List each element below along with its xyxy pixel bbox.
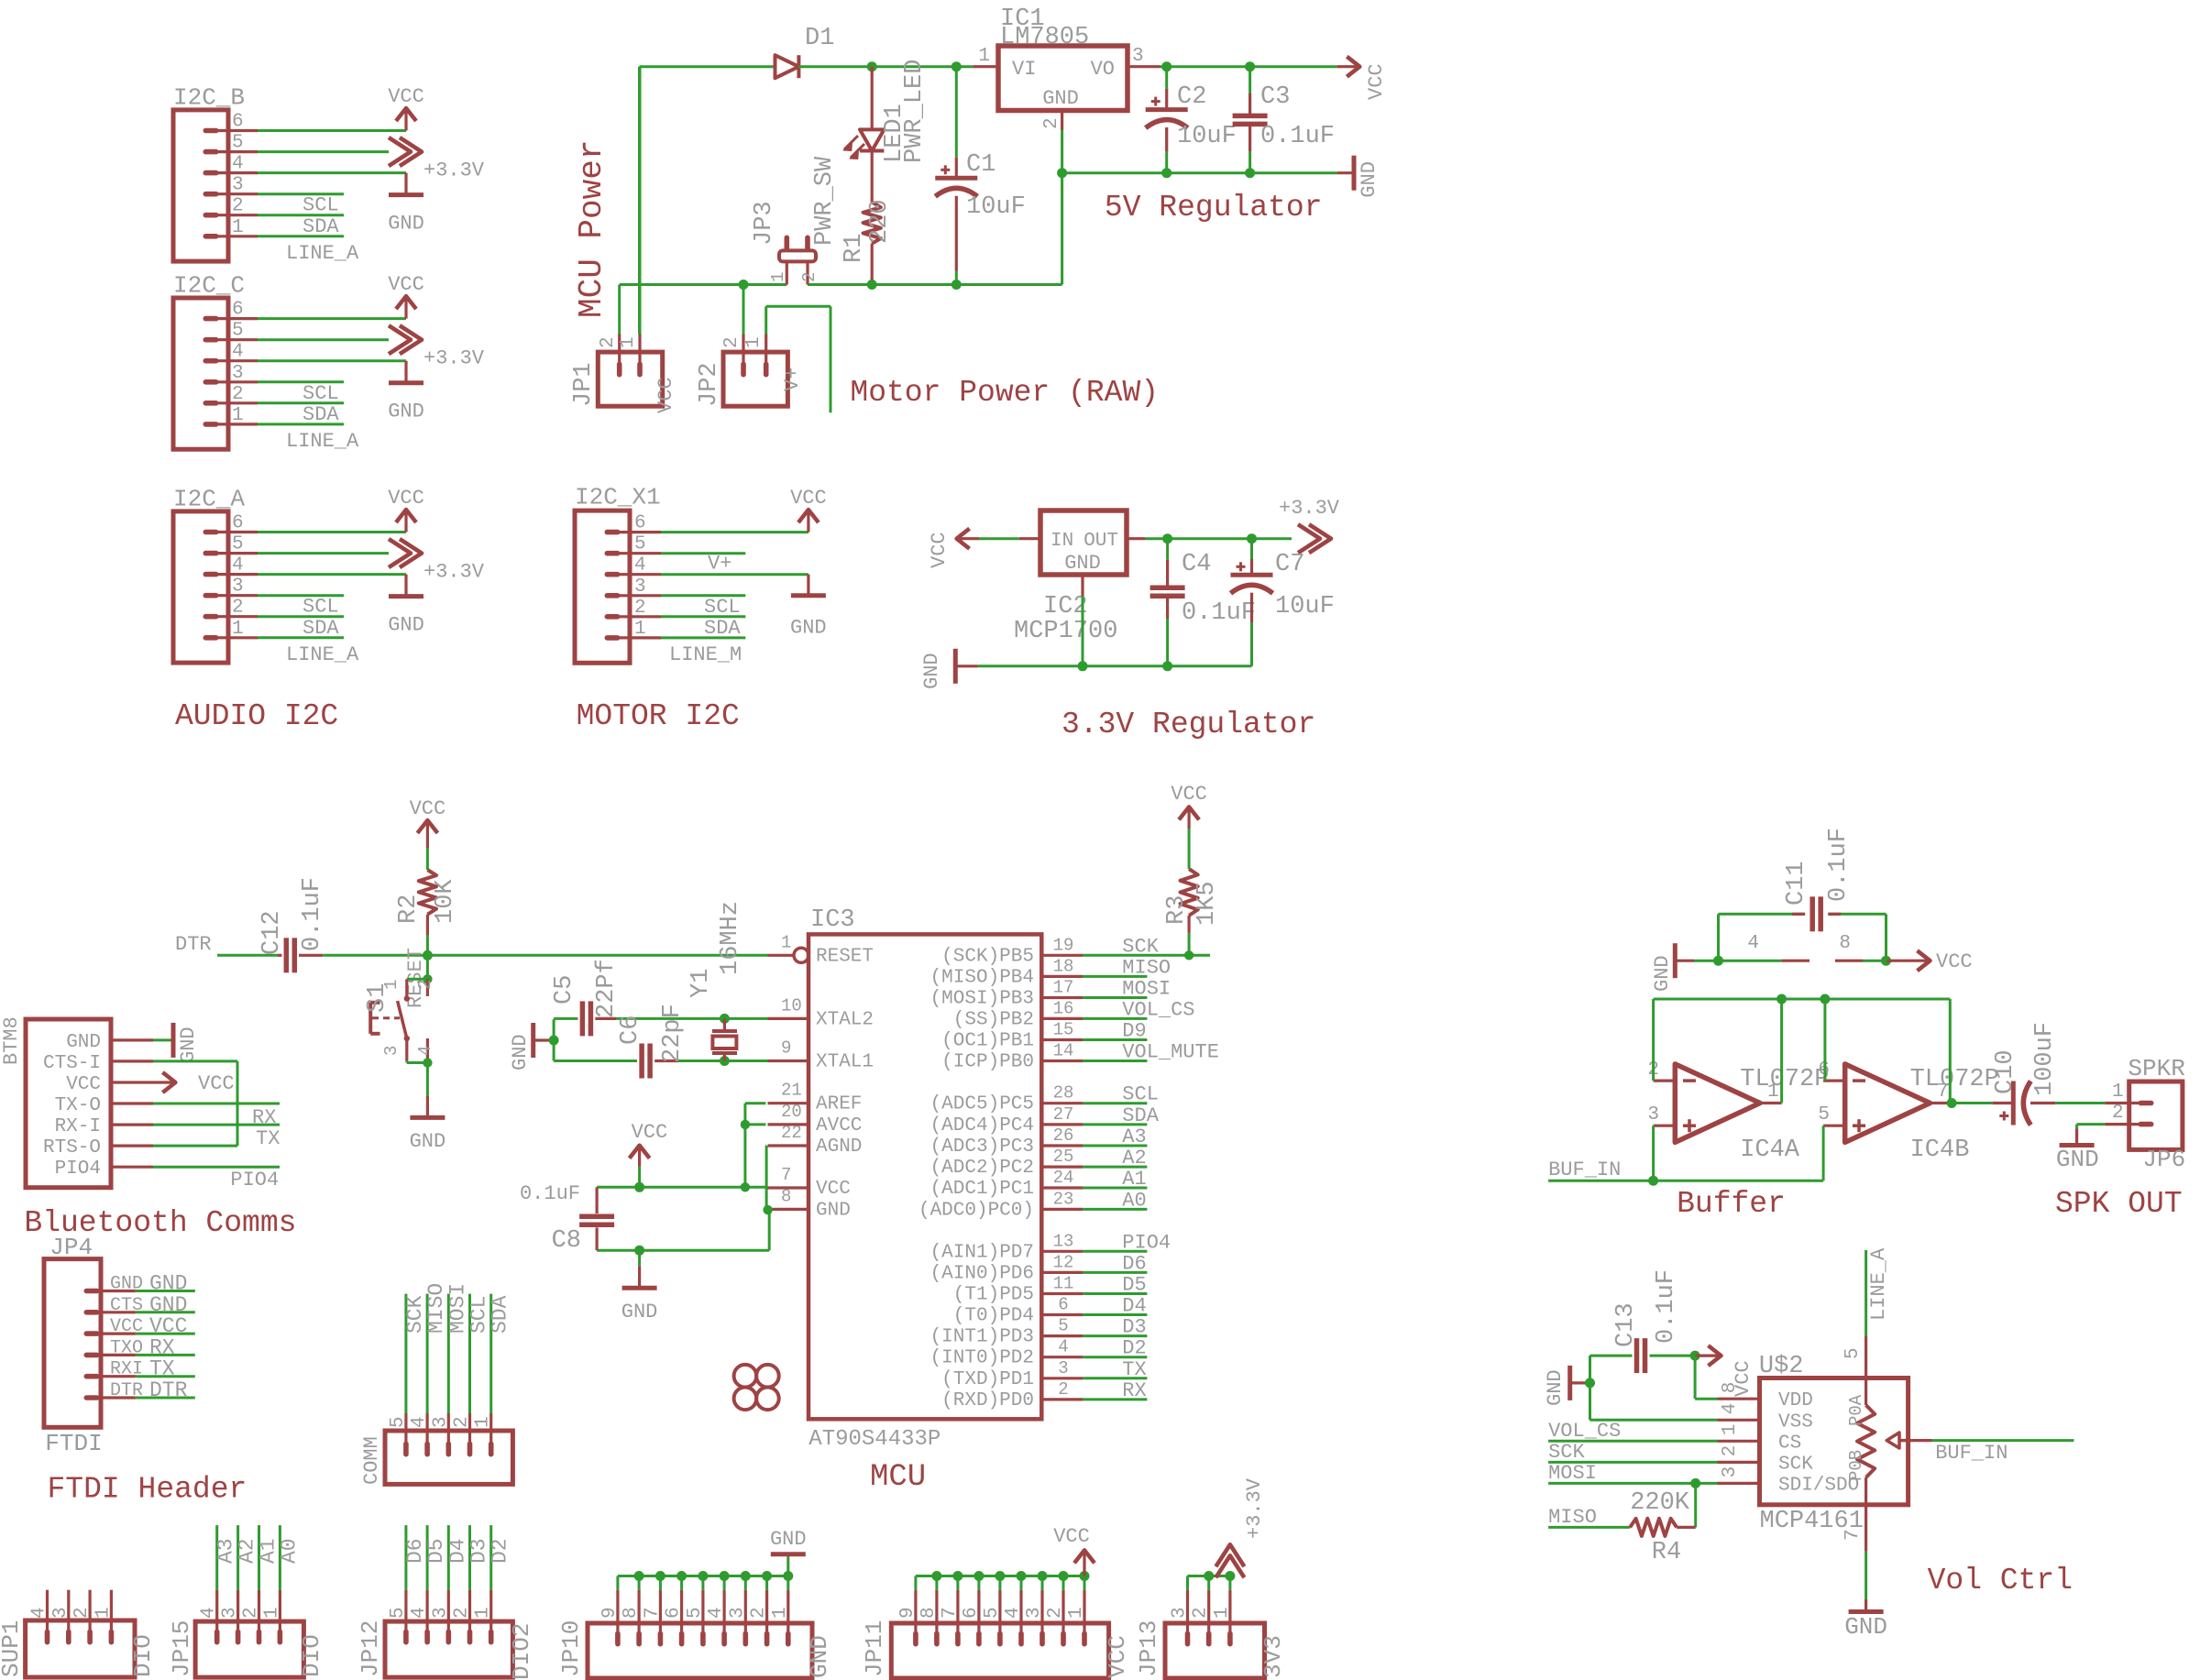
wire COMM SDA <box>489 1294 492 1413</box>
junction JP13 pads <box>1204 1571 1214 1581</box>
junction JP11 pad <box>1080 1571 1090 1581</box>
svg-text:R1: R1 <box>841 234 868 263</box>
wire VSS gnd route <box>1589 1383 1591 1420</box>
wire I2C_B pin3 <box>258 192 344 195</box>
wire IC3 pin 26 net A3 <box>1083 1145 1147 1147</box>
svg-text:V+: V+ <box>781 368 804 391</box>
junction MOSI-R4 <box>1690 1478 1700 1488</box>
ground GND I2C_X1 <box>790 575 827 640</box>
svg-text:1: 1 <box>768 272 788 282</box>
svg-text:0.1uF: 0.1uF <box>1260 123 1335 150</box>
wire JP15 A2 <box>236 1525 239 1590</box>
wire JP13 3v3 bus <box>1186 1576 1189 1590</box>
svg-text:GND: GND <box>2056 1146 2099 1173</box>
svg-text:LINE_A: LINE_A <box>286 242 359 265</box>
svg-text:4: 4 <box>232 342 244 363</box>
svg-text:JP11: JP11 <box>861 1620 888 1677</box>
svg-text:C7: C7 <box>1275 551 1304 578</box>
svg-text:1: 1 <box>473 1607 494 1619</box>
svg-text:A1: A1 <box>1122 1168 1146 1191</box>
wire AGND loop <box>764 1145 768 1147</box>
svg-text:(MOSI)PB3: (MOSI)PB3 <box>930 989 1034 1010</box>
svg-text:VOL_CS: VOL_CS <box>1122 998 1194 1021</box>
power VCC I2C_C <box>388 273 424 319</box>
svg-text:(SS)PB2: (SS)PB2 <box>953 1009 1034 1030</box>
svg-text:R3: R3 <box>1163 895 1191 925</box>
svg-text:MCP1700: MCP1700 <box>1014 618 1117 645</box>
svg-text:9: 9 <box>781 1038 791 1059</box>
svg-text:3: 3 <box>220 1607 241 1619</box>
junction JP2 tap <box>739 280 749 290</box>
svg-text:C5: C5 <box>551 975 578 1005</box>
svg-text:7: 7 <box>781 1165 791 1185</box>
svg-text:VCC: VCC <box>110 1316 143 1337</box>
wire JP15 A0 <box>279 1525 281 1590</box>
ground GND JP10 <box>770 1528 807 1576</box>
svg-text:P0B: P0B <box>1846 1450 1866 1481</box>
svg-text:5: 5 <box>388 1607 409 1619</box>
svg-text:IC3: IC3 <box>810 906 855 934</box>
svg-text:MOSI: MOSI <box>1548 1462 1597 1485</box>
svg-text:VCC: VCC <box>149 1314 187 1338</box>
svg-text:1: 1 <box>232 619 244 640</box>
resistor R4 220K <box>1630 1489 1696 1566</box>
junction feedback B <box>1820 994 1830 1005</box>
svg-text:MCU: MCU <box>870 1460 926 1495</box>
svg-text:2: 2 <box>1058 1379 1068 1400</box>
svg-text:VOL_MUTE: VOL_MUTE <box>1122 1041 1219 1064</box>
svg-text:10K: 10K <box>432 879 459 924</box>
svg-text:IC4B: IC4B <box>1910 1136 1970 1164</box>
svg-text:SUP1: SUP1 <box>0 1620 25 1677</box>
svg-text:5: 5 <box>685 1607 706 1619</box>
wire C5 to XTAL2 <box>616 1017 768 1020</box>
svg-text:C1: C1 <box>966 151 995 179</box>
svg-text:AT90S4433P: AT90S4433P <box>808 1427 940 1452</box>
svg-text:Buffer: Buffer <box>1677 1187 1786 1221</box>
svg-text:TL072P: TL072P <box>1740 1066 1829 1093</box>
svg-text:C4: C4 <box>1182 551 1211 578</box>
svg-text:3: 3 <box>381 1046 401 1056</box>
svg-text:VCC: VCC <box>1171 783 1207 806</box>
svg-text:4: 4 <box>29 1607 50 1619</box>
svg-text:(SCK)PB5: (SCK)PB5 <box>941 946 1034 967</box>
wire JP15 A3 <box>215 1525 218 1590</box>
svg-text:SDA: SDA <box>302 215 339 238</box>
svg-text:2: 2 <box>452 1416 473 1428</box>
svg-text:2: 2 <box>452 1607 473 1619</box>
svg-text:VCC: VCC <box>198 1072 235 1095</box>
junction C13 gnd <box>1585 1378 1595 1388</box>
svg-text:PIO4: PIO4 <box>1122 1231 1171 1254</box>
svg-text:0.1uF: 0.1uF <box>1825 828 1853 902</box>
svg-text:5: 5 <box>1058 1316 1068 1336</box>
svg-text:3: 3 <box>232 363 244 384</box>
connector JP4 FTDI <box>44 1234 136 1457</box>
svg-text:GND: GND <box>410 1130 446 1153</box>
svg-text:10uF: 10uF <box>1275 593 1335 620</box>
svg-text:VOL_CS: VOL_CS <box>1548 1420 1621 1443</box>
svg-text:GND: GND <box>1844 1613 1887 1641</box>
svg-text:1K5: 1K5 <box>1193 881 1221 926</box>
ground GND C13 <box>1544 1366 1587 1406</box>
svg-text:4: 4 <box>409 1416 430 1428</box>
svg-text:6: 6 <box>1058 1295 1068 1315</box>
junction JP10 pad <box>634 1571 644 1581</box>
wire JP12 D2 <box>489 1525 492 1590</box>
svg-text:TX: TX <box>149 1357 175 1381</box>
junction C11 right <box>1881 956 1891 966</box>
wire COMM MISO <box>426 1294 429 1413</box>
svg-text:(RXD)PD0: (RXD)PD0 <box>941 1390 1034 1411</box>
svg-text:9: 9 <box>599 1607 621 1619</box>
wire gnd rail C2-C3-GND <box>1062 171 1337 174</box>
svg-text:6: 6 <box>232 300 244 321</box>
svg-text:A0: A0 <box>1122 1189 1146 1212</box>
junction JP10 pad <box>783 1571 793 1581</box>
connector JP13 <box>1135 1590 1287 1678</box>
svg-text:LINE_A: LINE_A <box>286 430 359 453</box>
wire feedback rail <box>1654 998 1951 1001</box>
junction C4 bottom <box>1162 661 1172 671</box>
wire pin8 GND down to bottom rail <box>768 1209 770 1212</box>
connector JP2 <box>696 335 804 408</box>
svg-text:(AIN1)PD7: (AIN1)PD7 <box>930 1242 1034 1263</box>
wire JP4 CTS net GND <box>136 1311 195 1313</box>
wire I2C_C pin5 to +3.3V <box>258 338 389 341</box>
junction JP11 pad <box>973 1571 984 1581</box>
svg-text:JP1: JP1 <box>570 362 598 407</box>
svg-text:3V3: 3V3 <box>1259 1635 1287 1678</box>
svg-text:6: 6 <box>664 1607 685 1619</box>
wire I2C_X1 pin6 to VCC <box>661 531 808 533</box>
svg-text:SCL: SCL <box>302 194 339 217</box>
svg-text:6: 6 <box>634 513 646 534</box>
wire I2C_C pin3 <box>258 380 344 383</box>
connector JP10 <box>557 1590 833 1678</box>
svg-text:VCC: VCC <box>1104 1635 1131 1678</box>
wire BUF_IN volctrl <box>1932 1439 2074 1442</box>
junction JP11 pad <box>931 1571 941 1581</box>
svg-text:SDA: SDA <box>704 617 741 640</box>
svg-text:2: 2 <box>634 598 646 619</box>
svg-text:RTS-O: RTS-O <box>43 1137 101 1158</box>
svg-text:I2C_X1: I2C_X1 <box>575 484 661 511</box>
microcontroller IC3 AT90S4433P <box>768 906 1083 1452</box>
svg-text:RX: RX <box>149 1335 175 1359</box>
wire IC3 pin 23 net A0 <box>1083 1208 1147 1211</box>
svg-text:8: 8 <box>1839 933 1851 954</box>
wire IC1 GND pin down <box>1061 130 1063 285</box>
svg-text:D4: D4 <box>445 1538 469 1564</box>
junction JP11 pad <box>1017 1571 1027 1581</box>
ground GND BTM8 <box>153 1023 200 1063</box>
wire I2C_A pin6 to VCC <box>258 531 406 533</box>
power VCC R3 <box>1171 783 1207 869</box>
svg-text:IC2: IC2 <box>1043 593 1088 620</box>
switch S1 <box>364 955 435 1067</box>
svg-text:SCK: SCK <box>403 1295 427 1334</box>
svg-text:17: 17 <box>1053 978 1074 998</box>
junction JP11 pad <box>1059 1571 1069 1581</box>
svg-text:3: 3 <box>430 1416 451 1428</box>
svg-text:A0: A0 <box>277 1538 301 1564</box>
svg-text:IC4A: IC4A <box>1740 1136 1800 1164</box>
svg-text:GND: GND <box>621 1301 658 1323</box>
junction feedback A <box>1776 994 1787 1005</box>
wire IC3 pin 12 net D6 <box>1083 1271 1147 1274</box>
svg-text:SCL: SCL <box>302 382 339 405</box>
svg-text:(ADC4)PC4: (ADC4)PC4 <box>930 1115 1034 1136</box>
svg-text:4: 4 <box>634 555 646 576</box>
svg-text:VDD: VDD <box>1778 1390 1813 1411</box>
svg-text:AVCC: AVCC <box>816 1115 862 1136</box>
junction JP11 pad <box>1038 1571 1048 1581</box>
junction crystal bottom <box>720 1056 730 1066</box>
svg-text:(MISO)PB4: (MISO)PB4 <box>930 967 1034 988</box>
wire IC1 VO to VCC <box>1127 65 1160 68</box>
svg-text:2: 2 <box>1191 1607 1212 1619</box>
svg-text:8: 8 <box>918 1607 940 1619</box>
wire IC3 pin 14 net VOL_MUTE <box>1083 1060 1147 1062</box>
capacitor C13 <box>1590 1269 1696 1383</box>
junction C2 bottom <box>1161 168 1171 178</box>
capacitor C1 <box>935 67 1026 285</box>
wire JP15 A1 <box>258 1525 260 1590</box>
svg-text:7: 7 <box>940 1607 961 1619</box>
svg-text:8: 8 <box>1720 1382 1741 1394</box>
wire JP10 gnd bus <box>616 1576 619 1590</box>
svg-text:4: 4 <box>232 555 244 576</box>
svg-text:R2: R2 <box>395 895 423 924</box>
svg-text:25: 25 <box>1053 1147 1074 1167</box>
svg-text:26: 26 <box>1053 1125 1074 1146</box>
svg-text:16: 16 <box>1053 998 1074 1018</box>
wire I2C_C pin2 net SCL <box>258 401 344 404</box>
svg-text:10uF: 10uF <box>966 193 1026 221</box>
svg-text:GND: GND <box>110 1274 143 1295</box>
svg-text:22Pf: 22Pf <box>593 959 621 1018</box>
wire RESET node to IC3 <box>427 954 767 957</box>
svg-text:GND: GND <box>816 1200 851 1221</box>
wire JP6 pin2 gnd <box>2077 1123 2106 1125</box>
wire IC3 pin 24 net A1 <box>1083 1187 1147 1190</box>
svg-text:JP12: JP12 <box>357 1620 384 1677</box>
svg-text:1: 1 <box>1212 1607 1233 1619</box>
digipot U$2 MCP4161 <box>1718 1335 1932 1551</box>
wire U$2 pin7 gnd <box>1864 1552 1867 1599</box>
svg-text:5: 5 <box>388 1416 409 1428</box>
svg-text:1: 1 <box>1066 1607 1087 1619</box>
svg-text:2: 2 <box>241 1607 262 1619</box>
svg-text:D2: D2 <box>1122 1337 1146 1360</box>
wire I2C_C pin4 to GND <box>258 359 406 362</box>
connector I2C_B <box>173 84 258 262</box>
svg-text:I2C_C: I2C_C <box>173 272 245 300</box>
ground GND crystal <box>509 1023 554 1071</box>
wire IC3 pin 27 net SDA <box>1083 1123 1147 1125</box>
junction C1 at switched rail <box>951 280 962 290</box>
wire IC2 IN to VCC <box>979 537 1019 540</box>
wire RX-I net TX <box>153 1124 280 1126</box>
junction C13 right VCC <box>1690 1351 1700 1361</box>
svg-text:13: 13 <box>1053 1231 1074 1251</box>
svg-text:V+: V+ <box>708 553 731 576</box>
svg-text:XTAL1: XTAL1 <box>816 1052 874 1073</box>
svg-text:LINE_M: LINE_M <box>669 643 742 666</box>
svg-text:3: 3 <box>1024 1607 1045 1619</box>
wire MISO <box>1548 1526 1630 1529</box>
capacitor C11 <box>1719 828 1886 961</box>
svg-text:SCL: SCL <box>302 596 339 619</box>
svg-text:7: 7 <box>642 1607 663 1619</box>
svg-text:C8: C8 <box>552 1227 581 1255</box>
junction JP11 pad <box>952 1571 962 1581</box>
svg-text:DIO: DIO <box>129 1634 157 1677</box>
svg-text:SDA: SDA <box>1122 1104 1159 1127</box>
power VCC I2C_X1 <box>790 487 827 533</box>
svg-text:4: 4 <box>1058 1337 1068 1357</box>
svg-text:5: 5 <box>232 534 244 555</box>
svg-text:BUF_IN: BUF_IN <box>1935 1442 2007 1465</box>
svg-text:6: 6 <box>232 112 244 133</box>
resistor R2 <box>395 870 459 955</box>
svg-text:SPKR: SPKR <box>2128 1055 2184 1082</box>
svg-text:1: 1 <box>634 619 646 640</box>
svg-text:JP10: JP10 <box>557 1620 585 1677</box>
svg-text:6: 6 <box>232 513 244 534</box>
wire IC2 OUT rail <box>1146 537 1292 540</box>
wire LINE_A <box>1864 1250 1867 1335</box>
svg-text:1: 1 <box>978 46 990 67</box>
svg-text:SCL: SCL <box>1122 1083 1159 1106</box>
svg-text:4: 4 <box>1720 1403 1741 1415</box>
svg-text:VCC: VCC <box>388 487 424 510</box>
power VCC input arrow <box>928 529 979 568</box>
power +3.3V I2C_C <box>389 325 485 370</box>
wire raw top rail <box>640 65 775 68</box>
connector SUP1 <box>0 1590 157 1677</box>
svg-text:MISO: MISO <box>424 1283 448 1334</box>
op-amp IC4B TL072P <box>1818 1060 1998 1164</box>
svg-text:18: 18 <box>1053 956 1074 976</box>
junction IC2 gnd rail <box>1078 661 1088 671</box>
svg-text:GND: GND <box>1544 1369 1567 1406</box>
svg-text:VCC: VCC <box>790 487 827 510</box>
svg-text:JP2: JP2 <box>696 362 723 407</box>
svg-text:GND: GND <box>509 1034 532 1071</box>
svg-text:VCC: VCC <box>66 1074 101 1095</box>
svg-text:4: 4 <box>409 1607 430 1619</box>
svg-text:GND: GND <box>1064 552 1101 575</box>
wire C6 rail <box>554 1060 637 1062</box>
svg-text:GND: GND <box>388 401 424 423</box>
power VCC output arrow <box>1336 57 1388 100</box>
svg-text:C12: C12 <box>258 910 286 955</box>
svg-text:VCC: VCC <box>410 797 446 820</box>
connector JP12 <box>357 1590 535 1680</box>
wire MOSI volctrl <box>1548 1482 1717 1485</box>
wire DTR to C12 <box>217 954 278 957</box>
svg-text:DTR: DTR <box>110 1380 143 1401</box>
wire I2C_A pin5 to +3.3V <box>258 552 389 555</box>
svg-text:AUDIO I2C: AUDIO I2C <box>175 699 338 733</box>
svg-text:23: 23 <box>1053 1189 1074 1209</box>
svg-text:C10: C10 <box>1992 1049 2019 1094</box>
wire JP1 pin2 up to switched rail <box>618 285 621 335</box>
svg-text:3: 3 <box>232 576 244 598</box>
svg-text:2: 2 <box>232 384 244 405</box>
svg-text:VCC: VCC <box>654 377 677 413</box>
wire IC3 pin 13 net PIO4 <box>1083 1250 1147 1253</box>
wire TX-O net RX <box>153 1103 280 1105</box>
wire IC3 pin 25 net A2 <box>1083 1166 1147 1169</box>
connector I2C_C <box>173 272 258 450</box>
junction C2 top <box>1161 61 1171 71</box>
power VCC I2C_B <box>388 85 424 131</box>
junction AGND at pin8 <box>763 1205 772 1214</box>
svg-text:GND: GND <box>149 1272 187 1296</box>
svg-text:D9: D9 <box>1122 1020 1146 1043</box>
junction JP11 pad <box>995 1571 1005 1581</box>
svg-text:2: 2 <box>799 272 819 282</box>
svg-text:1: 1 <box>232 405 244 426</box>
wire JP2 pin2 up to switched rail <box>742 285 745 335</box>
wire JP2 pin1 V+ route <box>764 306 767 334</box>
wire I2C_X1 pin1 net SDA <box>661 636 745 639</box>
svg-text:(AIN0)PD6: (AIN0)PD6 <box>930 1263 1034 1284</box>
svg-text:VCC: VCC <box>928 532 951 568</box>
wire IC3 pin 18 net MISO <box>1083 975 1147 978</box>
svg-text:C13: C13 <box>1612 1302 1640 1347</box>
wire JP11 vcc bus <box>914 1576 917 1590</box>
resistor R1 <box>841 151 894 285</box>
svg-text:D1: D1 <box>805 25 834 52</box>
svg-text:Vol Ctrl: Vol Ctrl <box>1928 1564 2073 1598</box>
wire VCC row to C8 <box>597 1186 767 1189</box>
wire I2C_A pin2 net SCL <box>258 615 344 618</box>
wire SCK volctrl <box>1548 1461 1717 1464</box>
svg-text:D5: D5 <box>1122 1274 1146 1297</box>
ground GND S1 <box>410 1096 446 1153</box>
svg-text:+3.3V: +3.3V <box>423 561 485 584</box>
ground rail 3.3V regulator <box>978 664 1252 667</box>
svg-text:PWR_SW: PWR_SW <box>811 156 839 246</box>
wire raw input vertical <box>638 67 641 335</box>
junction SCK at R3 <box>1184 950 1193 960</box>
svg-text:TL072P: TL072P <box>1910 1066 1999 1093</box>
connector JP11 <box>861 1590 1131 1678</box>
svg-text:2: 2 <box>232 598 244 619</box>
junction JP10 pad <box>655 1571 665 1581</box>
wire I2C_B pin4 to GND <box>258 171 406 174</box>
wire I2C_A pin4 to GND <box>258 573 406 576</box>
svg-text:0.1uF: 0.1uF <box>520 1182 580 1205</box>
svg-text:VCC: VCC <box>816 1179 851 1200</box>
svg-text:LINE_A: LINE_A <box>1867 1247 1890 1321</box>
svg-text:C11: C11 <box>1783 861 1810 906</box>
svg-text:5V Regulator: 5V Regulator <box>1105 191 1323 225</box>
wire JP4 GND net GND <box>136 1290 195 1292</box>
svg-text:SCL: SCL <box>704 596 741 619</box>
connector JP15 <box>168 1590 325 1677</box>
wire opamp power right <box>1835 960 1863 962</box>
svg-text:CS: CS <box>1778 1433 1801 1454</box>
svg-text:(TXD)PD1: (TXD)PD1 <box>941 1369 1034 1390</box>
regulator IC2 MCP1700 <box>1014 511 1146 645</box>
wire IC3 pin 6 net D4 <box>1083 1313 1147 1316</box>
svg-text:FTDI Header: FTDI Header <box>48 1473 247 1507</box>
